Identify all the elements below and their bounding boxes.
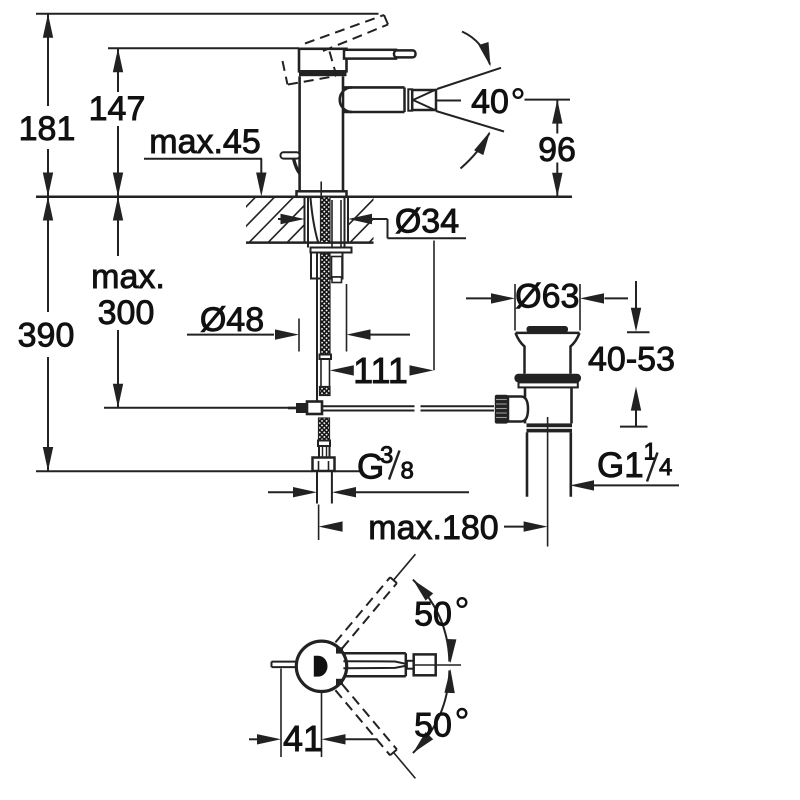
- spray fan upper line: [437, 68, 501, 89]
- bottom view stop tick lower: [336, 679, 343, 685]
- reference line: top of faucet cap (147): [108, 47, 299, 49]
- svg-text:8: 8: [401, 458, 414, 485]
- svg-text:41: 41: [283, 718, 323, 759]
- upper lever extension line: [394, 554, 416, 580]
- O63 left extension line: [514, 284, 516, 331]
- drain rod boss: [508, 397, 528, 422]
- dimension O48 arrows: [187, 334, 274, 336]
- 41 right extension line (center): [321, 692, 323, 758]
- dimension 96 vertical line: [556, 100, 558, 134]
- spout tube: [343, 86, 405, 89]
- 40 deg arc top arrowhead: [479, 42, 491, 67]
- svg-text:max.45: max.45: [149, 123, 261, 161]
- base flange: [297, 191, 347, 197]
- reference line: top of raised lever (181): [36, 13, 379, 15]
- deck top line: [36, 196, 572, 199]
- bottom view: faucet body circle: [296, 641, 346, 691]
- dashed lever handle (raised position): [305, 15, 384, 44]
- shank tube: [307, 197, 309, 248]
- svg-text:300: 300: [98, 294, 155, 332]
- 41 left extension line: [280, 669, 282, 758]
- dimension 390 vertical line: [47, 197, 49, 313]
- bottom view: rod nipple left: [272, 661, 298, 663]
- horizontal pop-up rod to drain: [322, 405, 415, 407]
- hose smooth section: [320, 359, 322, 387]
- reference line: hose end level (max.300): [104, 407, 296, 409]
- deck bottom line: [246, 241, 374, 244]
- G3/8 arrows: [268, 491, 293, 493]
- shank below tee: [319, 418, 330, 441]
- svg-text:Ø34: Ø34: [395, 203, 459, 241]
- dimension 147 top arrow: [113, 48, 123, 72]
- bottom view: dashed lever lower (50 deg): [335, 690, 390, 755]
- drain neck left: [516, 333, 525, 374]
- dimension 41: [249, 738, 258, 740]
- extension line aerator center: [433, 241, 435, 371]
- svg-text:181: 181: [19, 110, 76, 148]
- braided hose through deck: [321, 197, 331, 243]
- drain rubber seal: [514, 374, 581, 383]
- aerator collar: [408, 89, 412, 110]
- spray fan lower line: [436, 111, 504, 132]
- dimension 96 bottom arrow: [552, 173, 562, 197]
- aerator cone line upper: [413, 90, 436, 101]
- faucet center line: [320, 182, 322, 197]
- aerator cone line lower: [413, 100, 436, 111]
- lower lever extension line: [394, 752, 416, 778]
- drain knurled knob: [495, 395, 508, 424]
- rod guide foot: [332, 277, 342, 283]
- rod guide tube: [332, 257, 343, 278]
- pop-up rod tee fitting: [296, 403, 307, 413]
- braid end fitting: [320, 355, 332, 360]
- bottom view: spout bar: [343, 652, 405, 655]
- washer under deck: [311, 248, 352, 253]
- O48 right extension line: [346, 284, 348, 352]
- lever handle (horizontal): [344, 50, 396, 59]
- bottom view: spout inner channel: [343, 661, 408, 664]
- max.180 left extension line: [318, 505, 320, 541]
- bottom view spout center line: [415, 664, 461, 666]
- dimension 40-53: [635, 281, 637, 310]
- hose curve in shank: [311, 198, 319, 244]
- dashed cap (raised position): [283, 61, 288, 85]
- mounting nut: [311, 253, 343, 279]
- dimension 390 top arrow: [43, 197, 53, 221]
- dimension 390 bottom arrow: [43, 447, 53, 471]
- svg-text:40: 40: [471, 83, 509, 121]
- bottom view stop tick upper: [336, 647, 343, 653]
- 40 deg arc bottom: [461, 133, 490, 169]
- drain flange lower: [519, 382, 578, 387]
- dimension max.300 vertical line: [117, 197, 119, 257]
- G3/8 hose nut: [313, 458, 335, 472]
- leader to 40 deg label: [437, 100, 461, 102]
- max.45 leader underline: [144, 158, 262, 160]
- dimension 96 top arrow: [552, 100, 562, 124]
- 50 deg arc lower: [413, 670, 450, 753]
- svg-text:390: 390: [18, 317, 75, 355]
- max.45 down arrow: [256, 173, 266, 197]
- drain plug cap: [527, 326, 569, 333]
- drain neck right: [571, 333, 580, 374]
- hose end below nut: [316, 471, 318, 504]
- svg-text:Ø48: Ø48: [200, 301, 264, 339]
- svg-text:max.180: max.180: [368, 509, 498, 547]
- svg-text:G1: G1: [597, 446, 644, 485]
- bottom view: spout hole (D shape): [314, 656, 328, 677]
- faucet cap (cartridge housing): [299, 49, 347, 72]
- svg-text:40-53: 40-53: [588, 341, 675, 379]
- degree symbol 50 lower: [458, 709, 467, 718]
- faucet cap dark ring: [299, 71, 347, 76]
- drain flange top lip: [516, 332, 580, 335]
- svg-text:147: 147: [89, 90, 146, 128]
- svg-text:Ø63: Ø63: [515, 278, 579, 316]
- tee nipple: [288, 407, 296, 410]
- 50 deg arc upper: [413, 580, 450, 662]
- O48 left extension line: [298, 319, 300, 352]
- dimension 181 vertical line: [47, 14, 49, 106]
- pop-up pull rod vertical: [316, 253, 318, 402]
- drain body: [524, 387, 527, 423]
- deck hole edges: [304, 197, 306, 243]
- dimension max.300 top arrow: [113, 197, 123, 221]
- svg-text:50: 50: [414, 596, 452, 634]
- svg-text:111: 111: [353, 350, 408, 391]
- degree symbol 50 upper: [458, 598, 467, 607]
- svg-text:max.: max.: [91, 258, 165, 296]
- svg-text:3: 3: [380, 442, 393, 469]
- drain center line: [547, 417, 549, 547]
- drain body bottom band 2: [527, 429, 573, 433]
- pop-up pull rod hook: [281, 152, 300, 158]
- dimension 181 bottom arrow: [43, 173, 53, 197]
- dimension max.300 bottom arrow: [113, 384, 123, 408]
- spout end: [403, 87, 406, 112]
- degree symbol of 40: [514, 89, 523, 98]
- dimension 181 top arrow: [43, 14, 53, 38]
- aerator body: [412, 90, 436, 110]
- dimension O34 arrows: [278, 218, 296, 220]
- bottom view spout connector: [407, 661, 414, 669]
- svg-text:4: 4: [659, 454, 672, 481]
- dimension 147 vertical line: [117, 48, 119, 92]
- 40 deg arc top: [462, 32, 490, 65]
- dimension 111: [330, 365, 354, 375]
- deck hatching: [210, 196, 352, 244]
- O34 leader step: [387, 219, 389, 238]
- label G1 1/4 leader: [570, 480, 594, 490]
- max.45 leader vertical: [260, 159, 262, 175]
- dimension O63: [466, 297, 491, 299]
- svg-text:96: 96: [538, 131, 576, 169]
- O34 leader underline: [388, 237, 467, 239]
- dimension max.180: [319, 521, 343, 531]
- bottom view: dashed lever upper (50 deg): [342, 583, 397, 648]
- reference line: 390 bottom level: [36, 470, 313, 472]
- reference line aerator level (96 top): [525, 99, 571, 101]
- O63 right extension line: [579, 284, 581, 331]
- 40 deg arc bottom arrowhead: [474, 132, 490, 156]
- drain body bottom band 1: [527, 423, 573, 427]
- dimension 147 bottom arrow: [113, 173, 123, 197]
- bottom view aerator end: [414, 654, 436, 675]
- drain tailpipe: [526, 432, 529, 496]
- spout left cap arc: [340, 87, 352, 112]
- faucet body column: [298, 76, 301, 191]
- svg-text:50: 50: [414, 706, 452, 744]
